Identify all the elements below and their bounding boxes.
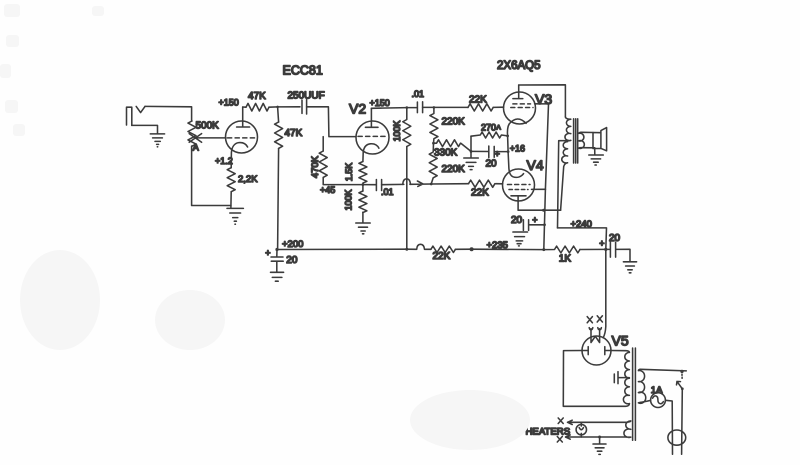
output transformer primary upper winding [565,117,571,141]
resistor 22K (V3 grid) [468,104,493,111]
svg-text:2X6AQ5: 2X6AQ5 [497,60,540,72]
svg-text:1K: 1K [559,254,572,265]
svg-text:20: 20 [486,158,498,169]
wire junction to coupling cap [278,106,300,108]
svg-text:+240: +240 [571,219,592,230]
arrow (signal to V4 grid) [410,181,431,186]
junction dot (+200 filter) [275,248,278,251]
V3 plate [513,85,523,99]
X mark (heater top) [558,418,563,424]
heater rail (top) [568,421,627,423]
screen bus (to V3/V4 screens) [544,104,549,249]
capacitor 250UUF (coupling) [302,100,307,114]
wire 22K to +235 dot [455,248,471,250]
svg-text:+: + [599,239,604,249]
capacitor 20 (cathode bypass) [471,146,508,158]
junction dot (+200/100K node) [405,248,408,251]
wire +240 riser [558,228,607,250]
X marks (heater winding connection) [587,316,602,323]
svg-text:220K: 220K [442,116,466,127]
wire return junction to ground [470,151,472,157]
svg-text:V2: V2 [349,101,366,117]
resistor 100K (V2 cathode to ground) [359,191,367,213]
V5 filament terminals (cups) [589,328,601,330]
pilot lamp leads [579,422,583,437]
svg-text:HEATERS: HEATERS [526,427,571,438]
V1 cathode [231,143,247,168]
resistor 22K (B+ dropper) [431,246,456,252]
output transformer primary lower winding [561,142,568,211]
wire 1K to +240 junction [580,248,606,250]
switch pivot [681,387,684,390]
ground (jack) [150,134,164,147]
wire junction to 47K vertical [278,107,279,122]
pot wiper arrow [189,134,201,143]
fuse element [653,396,664,404]
pentode V3 (6AQ5) envelope [504,92,536,124]
ground (cathode return) [464,158,479,170]
wire .01 upper to 220K node [423,106,434,108]
svg-text:470K: 470K [310,155,321,178]
output transformer secondary winding [579,132,585,148]
svg-text:22K: 22K [433,251,451,262]
V2 grid (dashed) [358,135,388,137]
junction dot (plate supply node) [276,106,279,109]
junction dot (divider tap) [432,142,435,145]
V4 screen stub to bus [532,188,546,190]
svg-text:+200: +200 [282,239,303,250]
junction dot (V2 plate node) [406,106,409,109]
V5 filament [591,329,600,343]
wire 470K to +45 node [323,177,363,184]
svg-text:250UUF: 250UUF [288,90,325,101]
arrow (heater top) [568,420,573,424]
wire jack tip to volume pot [145,106,192,121]
resistor 1.5K (V2 cathode) [359,162,367,184]
ground (+200 filter, hatched) [271,272,284,281]
V3 screen (dashed) [513,103,531,105]
V2 cathode [363,144,379,162]
wire heater to ground [599,437,601,444]
svg-text:22K: 22K [469,94,487,105]
svg-text:1A: 1A [651,385,663,396]
capacitor .01 (upper coupling) [407,102,423,113]
wire fuse to plug [665,400,672,454]
wire to 22K V4 [431,183,468,185]
svg-text:20: 20 [511,215,523,226]
wire 100K plate load down to +200 rail [406,147,408,250]
heater rail (bottom) [566,436,627,438]
power transformer mains primary winding [638,369,645,403]
junction dot (+16 node) [507,150,510,153]
junction blob (plate line / screen bus crossing) [542,209,545,212]
wire 47K vertical down to +200 rail [278,148,279,249]
V1 plate [237,107,250,127]
resistor 100K (V2 plate load) [403,108,411,147]
svg-text:ECC81: ECC81 [283,63,323,77]
wire 22K to V4 grid [496,183,503,185]
svg-text:+: + [532,215,537,225]
V2 plate [365,108,378,127]
triode V2 (1/2 ECC81) envelope [356,121,389,154]
triode V1 (1/2 ECC81) envelope [226,121,258,153]
junction dot (V3 grid network) [433,106,436,109]
wire V1 plate up to 47K [243,106,246,108]
resistor 330K [434,140,472,152]
pilot lamp [576,424,586,434]
resistor 470K [319,151,327,177]
junction dot (+45 node) [362,183,365,186]
wire wiper to V1 grid [196,137,226,139]
wire 47K to junction [269,106,278,108]
V4 grid (dashed) [508,184,531,186]
ground (V2 cathode) [356,223,370,234]
V3 grid (dashed) [511,107,533,109]
svg-text:2,2K: 2,2K [238,174,258,185]
V4 screen (dashed) [509,189,528,191]
fuse 1A [651,393,666,408]
svg-text:47K: 47K [248,91,266,102]
wire V3 plate to output transformer [519,85,566,117]
wire +45 node to 100K [362,185,364,191]
wire hop bump on +235 line [407,244,431,249]
resistor 22K (V4 grid) [469,180,495,187]
svg-text:+: + [265,248,270,258]
V1 grid (dashed) [228,137,256,139]
faint scan blotches [0,4,530,450]
wire secondary to speaker [581,132,595,148]
power transformer HV winding [623,352,629,403]
resistor 47K (vertical, decoupling) [275,122,283,148]
svg-text:+: + [495,149,500,159]
svg-text:20: 20 [286,255,298,266]
junction dot (+240 filter node) [604,248,607,251]
wire 250UUF to V2 grid [307,107,356,137]
svg-text:100K: 100K [392,120,402,141]
potentiometer 500K (volume) [188,121,196,146]
resistor 220K (lower) [429,143,437,184]
arrow (heater bottom) [566,435,571,439]
speaker [593,128,607,151]
junction dot (220K lower to V4 grid line) [430,183,433,186]
wire grid line to 470K [322,137,324,151]
capacitor 20 (+200 filter) [271,250,283,272]
pentode V4 (6AQ5) envelope [503,169,535,201]
junction dot (switch contact) [680,370,683,373]
wire V5 left plate to HV winding bottom [563,351,629,407]
switch blade with arrow [677,381,683,388]
wire hop over plate-load line [403,179,411,185]
svg-text:220K: 220K [442,164,466,175]
ground (V1 cathode) [227,208,243,224]
svg-text:.01: .01 [412,89,425,99]
mains plug [668,430,686,445]
svg-text:330K: 330K [434,147,458,158]
svg-text:47K: 47K [285,128,303,139]
V4 cathode [508,152,523,178]
capacitor .01 (lower coupling) [363,180,382,191]
svg-text:1.5K: 1.5K [344,163,354,182]
junction dot (screen bus bottom) [542,248,545,251]
resistor 270 ohm (cathode bias) [471,132,508,138]
junction dot (filter cap on screen bus) [543,223,546,226]
capacitor (across HV winding tap) [614,372,629,384]
ground (+240 filter) [623,262,636,273]
wire 22K to V3 grid [493,106,503,108]
junction dot (heater ground) [598,436,601,439]
output transformer center tap to +240 [558,141,570,228]
svg-text:270˄: 270˄ [481,123,501,133]
wire jack sleeve to ground [132,125,158,133]
output transformer core [574,119,578,163]
ground (speaker) [589,155,604,165]
svg-text:+1.2: +1.2 [215,156,233,166]
wire V2 plate to 100K node [371,107,406,110]
V5 plate (right) [605,347,611,355]
junction dot (cathode return) [470,150,473,153]
junction dot (+235 node) [470,247,474,251]
wire 100K to ground [362,212,364,222]
svg-text:+16: +16 [510,144,525,154]
svg-text:V5: V5 [612,333,629,349]
resistor 47K (horizontal, V1 plate) [246,103,269,111]
ground (+235 filter) [513,232,528,246]
svg-text:+45: +45 [320,185,335,195]
dotted contact gap [681,374,683,378]
junction dot (V3 cathode) [506,135,509,138]
wire speaker to ground [594,148,596,155]
V4 plate [511,196,526,201]
wire primary bottom to fuse [641,400,651,402]
svg-text:100K: 100K [344,189,354,210]
X mark (heater bottom) [557,437,562,443]
svg-text:A: A [193,142,199,152]
svg-text:+150: +150 [370,98,390,108]
wire .01 to hop [382,183,404,185]
wire +235 to screen-bus junction [472,248,544,250]
resistor 220K (upper) [430,107,438,143]
wire cathode junction down to +16 [507,136,510,152]
svg-text:20: 20 [609,233,621,244]
V5 plate (left) [582,347,588,355]
V3 screen stub to bus [535,103,549,105]
ground (heater) [593,444,606,454]
power transformer heater winding [624,421,631,438]
wire primary top to switch contact [640,369,686,371]
wire V4 plate to transformer primary bottom [518,201,561,210]
wire pot bottom to cathode junction [192,146,231,206]
wire switch to plug [681,389,684,454]
wire 2.2K to ground junction [230,192,232,208]
svg-text:+150: +150 [219,97,239,107]
svg-text:22K: 22K [471,187,489,198]
capacitor 20 (+240 filter) [606,242,630,261]
wire V5 right plate to HV winding top [611,351,629,353]
wire B+ down to rectifier V5 [603,249,606,337]
wire 270 left to return junction [470,136,472,151]
svg-text:500K: 500K [196,121,220,132]
resistor 1K [544,246,580,253]
capacitor 20 (+235 filter) [523,220,544,231]
resistor 2.2K (V1 cathode) [227,168,235,192]
wire +200 rail [278,248,407,250]
wire to 22K V3 [434,106,468,108]
rectifier V5 envelope [582,336,611,365]
power transformer core [633,348,636,440]
svg-text:.01: .01 [381,187,394,197]
input jack J1 [127,107,132,125]
jack tip contact [136,106,145,112]
V3 cathode [507,119,526,136]
svg-text:V4: V4 [527,157,544,173]
